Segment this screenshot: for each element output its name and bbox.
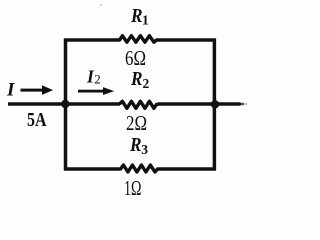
svg-text:2: 2 <box>143 76 150 91</box>
resistor R2 zigzag <box>120 101 159 108</box>
wire: faded scanned end of output lead <box>241 103 245 105</box>
current arrow I2 <box>78 87 114 95</box>
wire: bottom branch with resistor R3 zigzag <box>64 165 216 172</box>
svg-text:1: 1 <box>142 13 149 28</box>
scan speck <box>100 4 102 6</box>
svg-text:6Ω: 6Ω <box>125 46 146 70</box>
wire: right vertical bus <box>213 39 217 171</box>
svg-text:R: R <box>130 68 142 90</box>
svg-text:R: R <box>130 5 142 27</box>
svg-text:2Ω: 2Ω <box>126 111 147 135</box>
svg-text:3: 3 <box>141 142 148 157</box>
current arrow I <box>21 85 54 95</box>
wire: left vertical bus <box>64 39 68 171</box>
svg-text:2: 2 <box>94 72 101 87</box>
wire: middle output lead <box>158 102 241 106</box>
wire: middle input lead (node with current I) <box>8 102 120 106</box>
svg-text:1Ω: 1Ω <box>124 176 142 200</box>
wire: top branch with resistor R1 zigzag <box>64 36 216 43</box>
svg-text:R: R <box>129 134 141 156</box>
svg-text:I: I <box>6 80 15 101</box>
svg-text:5A: 5A <box>27 109 47 131</box>
node A: left junction dot <box>61 100 69 108</box>
node B: right junction dot <box>211 100 219 108</box>
